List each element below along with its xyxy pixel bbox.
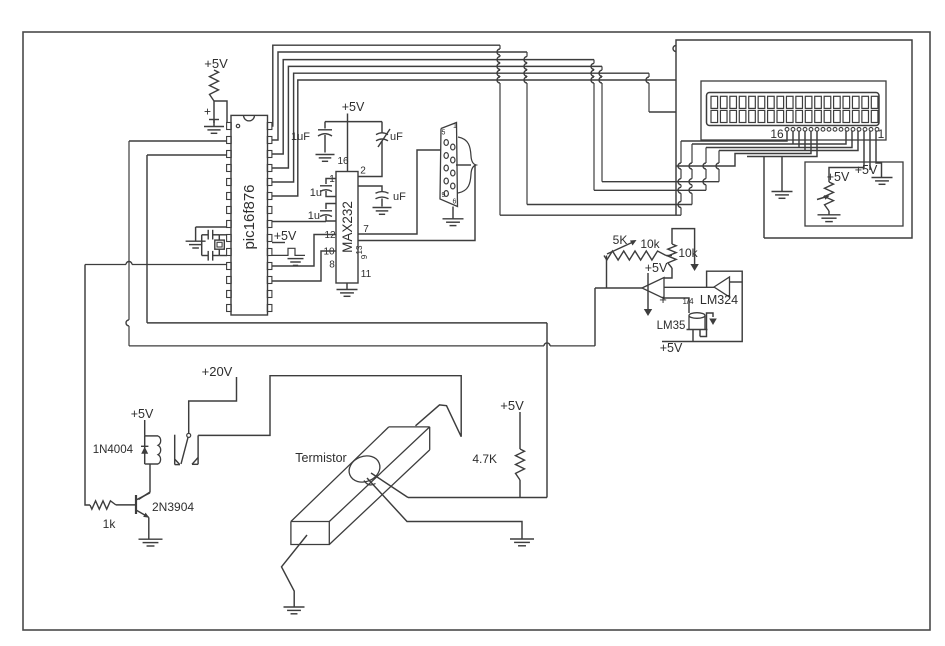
+20V supply (202, 364, 233, 379)
connector J1 DB9 (440, 123, 458, 207)
op-amp U3A (642, 278, 667, 308)
ground (LCD) (772, 192, 793, 199)
wire thermistor node horizontal (408, 497, 547, 499)
relay contact blade (181, 438, 188, 465)
+5V supply (PIC VDD) (272, 229, 297, 243)
wire bus line 6 (272, 80, 676, 196)
wire long horizontal to 4.7K node (147, 322, 547, 324)
label 10k (640, 237, 660, 251)
relay contact left post (175, 435, 180, 465)
svg-text:2: 2 (360, 166, 366, 177)
svg-text:8: 8 (329, 260, 335, 271)
wire long horizontal to op-amp output (129, 343, 595, 346)
wire osc left bus (202, 235, 209, 256)
wire node vertical x129 (126, 141, 129, 346)
resistor 4.7K (472, 449, 524, 480)
wire bus line 2 (272, 52, 692, 205)
plus mark (204, 105, 219, 120)
wire left vertical to 1k (85, 265, 90, 506)
svg-text:13: 13 (355, 245, 364, 254)
svg-text:1: 1 (453, 123, 457, 130)
wire between op-amps (664, 286, 714, 288)
svg-text:10k: 10k (678, 246, 698, 260)
wire +20V drop (189, 377, 237, 433)
ground (C5) (373, 208, 392, 215)
potentiometer R-contrast (817, 182, 834, 211)
capacitor C2 uF (376, 122, 403, 147)
svg-text:4.7K: 4.7K (472, 452, 497, 466)
transistor Q1 2N3904 (116, 493, 194, 518)
relay contact right post (192, 435, 198, 464)
svg-text:11: 11 (361, 269, 372, 280)
wire 4.7K bottom (519, 480, 521, 498)
svg-text:1uF: 1uF (291, 131, 310, 143)
wire LCD pin13 pin4 line (716, 131, 858, 182)
LCD module box (701, 81, 886, 140)
svg-text:16: 16 (337, 156, 349, 167)
LCD display cells (707, 93, 880, 126)
label Termistor (295, 451, 346, 465)
wire LCD pin3 contrast (829, 131, 864, 182)
wire heater lead to ground (282, 535, 308, 607)
pin label 11 (361, 269, 372, 280)
label LM324 (700, 293, 738, 307)
relay contact pivot (187, 433, 191, 437)
wire +5V to relay coil (144, 420, 146, 436)
svg-text:12: 12 (324, 230, 336, 241)
svg-text:+5V: +5V (855, 163, 878, 177)
svg-text:Termistor: Termistor (295, 451, 346, 465)
+5V supply (MAX232) (342, 100, 365, 114)
wire 10k to op-amp input (664, 268, 672, 278)
svg-text:+5V: +5V (660, 341, 683, 355)
wire LCD pin12 data (676, 131, 811, 166)
wire LCD pin15 pin6 line (689, 131, 846, 205)
wire op-amp2 loop (662, 271, 742, 341)
svg-text:+5V: +5V (131, 407, 154, 421)
wire LCD pin16 data (678, 131, 787, 215)
wire pin2 analog input (129, 140, 227, 142)
ground (below MCLR branch) (204, 119, 224, 133)
capacitor C-osc1 (208, 230, 219, 240)
wire LCD ground drop (781, 157, 783, 192)
svg-text:+5V: +5V (274, 229, 297, 243)
wire PIC pin21 to MAX232 cap (272, 221, 326, 223)
+5V supply (contrast pot) (827, 170, 850, 184)
capacitor C1 1uF (291, 122, 332, 153)
svg-text:+20V: +20V (202, 364, 233, 379)
svg-text:LM324: LM324 (700, 293, 738, 307)
label 5K (613, 233, 628, 247)
wire op-amp V+ and V- arrow (644, 273, 652, 316)
svg-text:pic16f876: pic16f876 (241, 184, 258, 249)
cable brace (456, 137, 476, 193)
svg-text:5: 5 (442, 130, 446, 137)
pin label 1 (329, 174, 335, 185)
svg-text:9: 9 (442, 192, 446, 199)
potentiometer 5K + resistor 10k (604, 240, 666, 260)
op-amp U3B (714, 277, 730, 297)
svg-text:+5V: +5V (342, 100, 365, 114)
PIC VSS to ground with jog (272, 248, 305, 265)
pin label 12 (324, 230, 336, 241)
crystal X1 (215, 235, 225, 256)
ground (MAX232 pin15) (337, 283, 358, 296)
wire resistor to pin1 (214, 101, 227, 123)
capacitor C5 right side (358, 186, 406, 207)
svg-text:uF: uF (390, 131, 403, 143)
+5V supply (4.7K) (500, 398, 524, 413)
svg-text:10k: 10k (640, 237, 660, 251)
capacitor C3 1uF (310, 179, 336, 200)
wire relay to heater (198, 376, 461, 437)
wire pot network to feedback loop (666, 255, 672, 257)
svg-text:1k: 1k (103, 517, 117, 531)
svg-text:uF: uF (393, 191, 406, 203)
pin label 13 (355, 245, 364, 254)
ground (DB9) (443, 207, 464, 226)
label 1/4 (682, 297, 694, 306)
wire box around LCD assembly (673, 40, 912, 238)
sensor LM35 (657, 313, 708, 342)
svg-text:9: 9 (360, 254, 369, 259)
svg-text:1N4004: 1N4004 (93, 444, 134, 456)
capacitor C4 1uF (308, 204, 336, 223)
svg-text:1u: 1u (310, 187, 322, 199)
wire node vertical to long line (546, 323, 548, 498)
level shifter U2 MAX232 (336, 172, 358, 284)
pin label 10 (323, 247, 335, 258)
svg-text:16: 16 (770, 127, 784, 141)
+5V supply (op-amp) (645, 261, 668, 275)
wire pot left leg (606, 256, 608, 289)
LCD pin row (785, 127, 879, 131)
+5V supply (relay) (131, 407, 154, 421)
wire MAX232 to DB9 brace (358, 165, 475, 241)
wire box inner vertical (763, 157, 765, 239)
+5V supply (LM35) (660, 341, 683, 355)
pin label 2 (360, 166, 366, 177)
thermistor RT1 (345, 451, 384, 486)
wire feedback loop (672, 229, 695, 264)
wire bus line 3 (272, 60, 706, 191)
svg-text:MAX232: MAX232 (340, 201, 355, 253)
svg-text:1u: 1u (308, 210, 320, 222)
wire node vertical x147 (146, 155, 148, 323)
wire bus line 1 (272, 45, 681, 215)
wire C2 branch to pin2 (358, 141, 382, 177)
capacitor C-osc2 (208, 251, 219, 261)
ground (thermistor node) (510, 539, 534, 546)
wire osc row top (196, 226, 227, 228)
ground (C1) (316, 155, 335, 162)
svg-text:+: + (204, 105, 211, 119)
wire osc gnd stem (195, 227, 197, 241)
wire op-amp output (595, 287, 642, 289)
ground (transistor) (139, 539, 163, 546)
ground (crystal) (186, 241, 206, 248)
svg-text:10: 10 (323, 247, 335, 258)
wire LCD pin11 data (747, 131, 817, 157)
svg-text:+5V: +5V (645, 261, 668, 275)
wire LCD pin2 +5V (855, 131, 878, 177)
heater tube prism (291, 427, 430, 545)
wire stub to ground cap (213, 101, 215, 123)
diode D1 1N4004 (93, 436, 149, 464)
wire osc row2 to pin (219, 255, 227, 257)
heater element (416, 405, 462, 437)
wire MAX232 pin10 to PIC pin12 (272, 251, 336, 281)
wire op-amp plus input (664, 298, 689, 313)
wire LCD pin14 pin5 line (703, 131, 852, 190)
LCD pin label 1 (878, 127, 885, 141)
ground (heater) (284, 607, 305, 614)
wire thermistor lead 2 (367, 478, 522, 539)
svg-text:+: + (659, 292, 667, 307)
wire LCD pin1 ground (876, 131, 882, 177)
microcontroller U1 pic16f876 (227, 115, 272, 315)
resistor R-base 1k (90, 501, 116, 531)
pin label 7 (363, 224, 369, 235)
wire +5V rail (325, 121, 382, 123)
arrow down (feedback) (690, 264, 698, 271)
svg-text:2N3904: 2N3904 (152, 500, 194, 514)
svg-text:LM35: LM35 (657, 320, 686, 332)
wire output down to long line (594, 288, 596, 346)
+5V supply label (MCLR pull-up) (204, 56, 228, 71)
ground (LCD pin1) (872, 178, 893, 185)
wire MAX232 pin7 to DB9 (358, 150, 441, 234)
wire LM35 right loop (700, 313, 717, 337)
wire bus line 5 (272, 73, 676, 182)
wire emitter to ground (148, 517, 150, 538)
wire +5V to 4.7K (519, 412, 521, 449)
pin label 9 (360, 254, 369, 259)
LCD pin label 16 (770, 127, 784, 141)
svg-text:+5V: +5V (500, 398, 524, 413)
wire coil to collector (139, 464, 151, 500)
ground (contrast pot) (818, 211, 841, 222)
resistor 10k vertical (668, 244, 699, 268)
contrast pot box (805, 162, 903, 226)
wire PIC pin11 to MAX232 pin12 (272, 235, 336, 267)
svg-text:1: 1 (329, 174, 335, 185)
svg-text:+5V: +5V (204, 56, 228, 71)
resistor R-MCLR pull-up (210, 70, 219, 101)
wire osc row1 to pin (219, 234, 227, 236)
svg-text:6: 6 (453, 199, 457, 206)
pin label 8 (329, 260, 335, 271)
wire bus line 4 (272, 66, 719, 181)
wire pin3 analog input (147, 154, 227, 156)
wire thermistor lead 1 (371, 473, 408, 498)
svg-text:1: 1 (878, 127, 885, 141)
wire pin11 to transistor base (horizontal) (85, 262, 227, 265)
relay coil K1 (145, 436, 161, 464)
wire +5V to pin16 (347, 114, 349, 172)
pin label 16 (337, 156, 349, 167)
